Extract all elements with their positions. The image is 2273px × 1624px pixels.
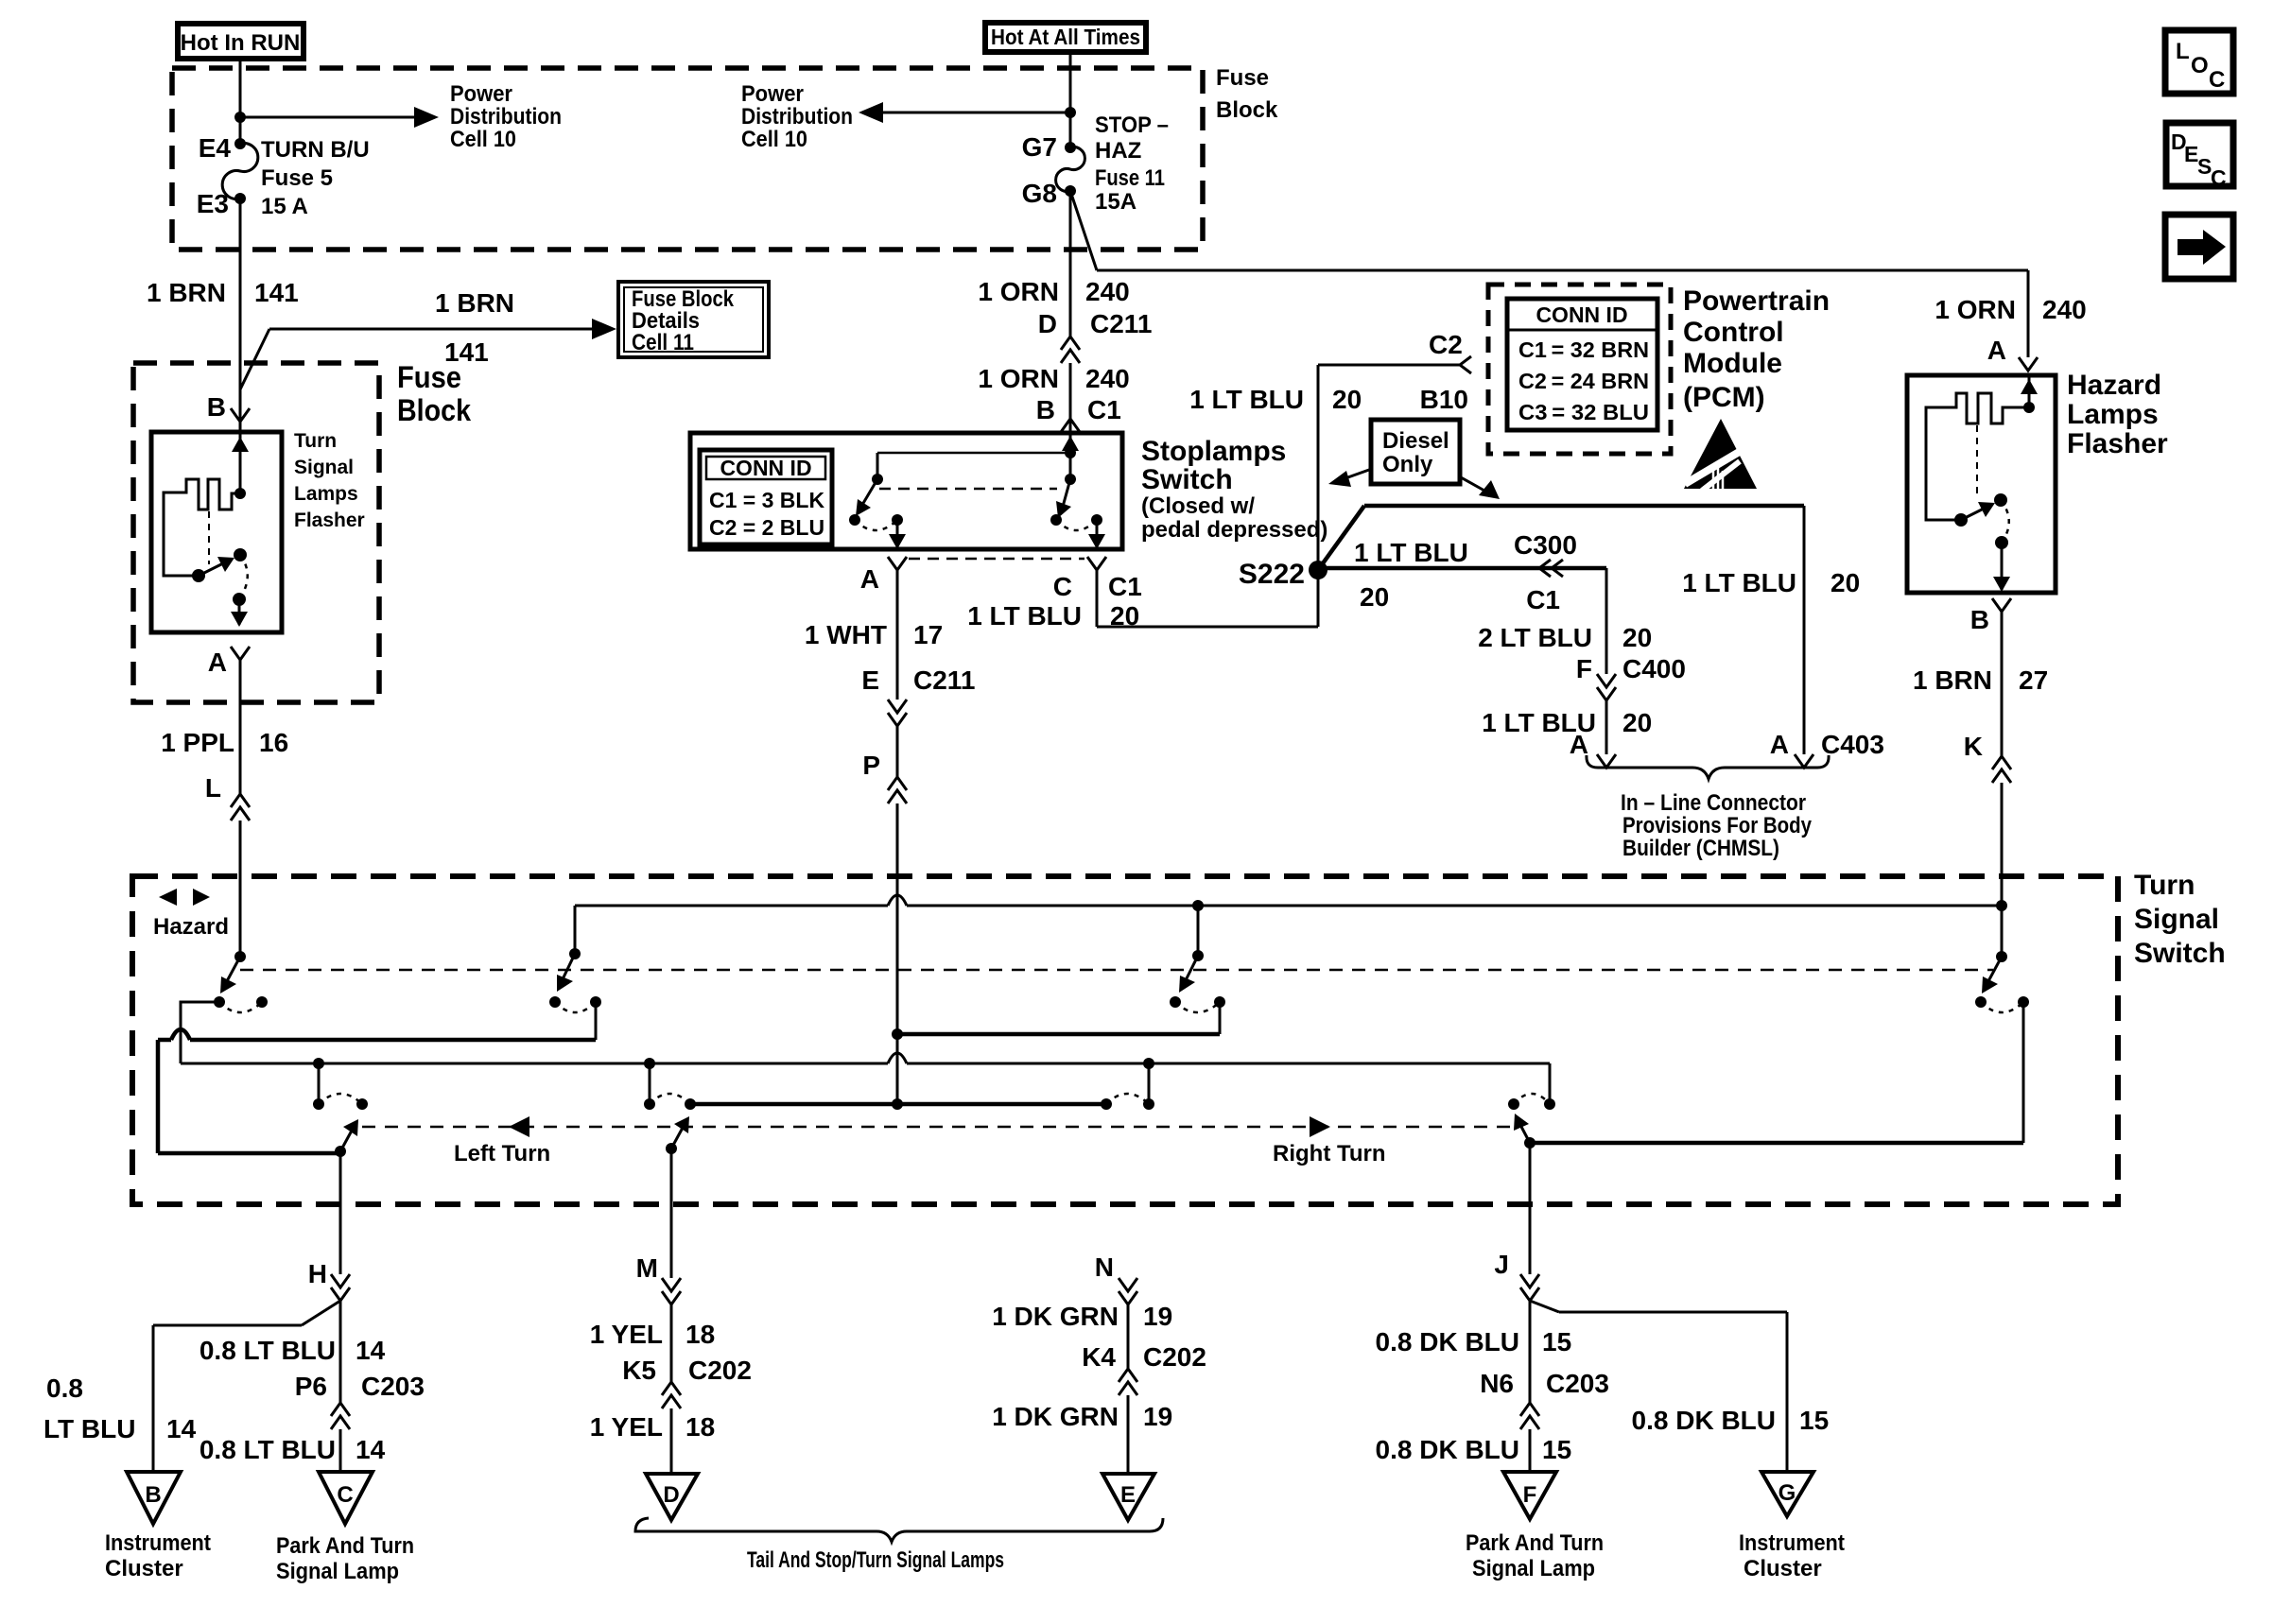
wire C202 to tail lamp D (1 YEL 18): [590, 1408, 715, 1474]
svg-text:Signal: Signal: [294, 457, 354, 478]
wire K down into turn signal switch: [2001, 783, 2004, 957]
svg-text:In – Line Connector: In – Line Connector: [1621, 790, 1806, 816]
node bus2 mid drop: [644, 1058, 655, 1104]
svg-text:1 LT BLU: 1 LT BLU: [1354, 538, 1468, 567]
fuse block (top) dashed outline: [172, 65, 1278, 250]
svg-text:1 LT BLU: 1 LT BLU: [1682, 568, 1796, 597]
hazard-left contact pair: [214, 996, 268, 1012]
hazard flasher feed wire with up arrow: [2021, 375, 2038, 413]
svg-text:C1: C1: [1087, 395, 1121, 424]
svg-text:A: A: [1987, 336, 2006, 365]
destination triangle C park and turn signal lamp: [276, 1472, 414, 1584]
svg-text:Fuse 11: Fuse 11: [1095, 165, 1165, 191]
power label Hot At All Times: [985, 23, 1146, 52]
svg-text:Switch: Switch: [1141, 464, 1233, 495]
wire M to C202 pin K5 (1 YEL 18): [590, 1304, 752, 1385]
wire A down to connector C211 pin E (1 WHT 17): [805, 570, 976, 700]
center-right pole from bus0: [1179, 906, 1204, 993]
svg-text:Block: Block: [1216, 97, 1278, 123]
connector C202 pin K5: [662, 1382, 681, 1408]
fuse block details cell 11 box: [618, 282, 769, 357]
wire C400 to C403 pin A (1 LT BLU 20): [1482, 700, 1652, 759]
wire center-left contact down to bus1: [595, 1002, 598, 1040]
wire hazard-left contact to feed bus2: [181, 1002, 219, 1063]
svg-text:18: 18: [685, 1320, 715, 1349]
hazard flasher contact arc: [1995, 500, 2009, 549]
right switch pole: [1065, 453, 1076, 485]
svg-text:E: E: [1120, 1482, 1136, 1508]
wire J branch to instrument cluster (0.8 DK BLU 15): [1530, 1301, 1829, 1472]
svg-text:L: L: [2176, 39, 2190, 64]
svg-text:C203: C203: [1546, 1369, 1609, 1398]
far-right contact pair: [1975, 996, 2029, 1012]
svg-text:1 YEL: 1 YEL: [590, 1320, 663, 1349]
svg-text:Cluster: Cluster: [1744, 1556, 1822, 1581]
svg-text:C1 = 3 BLK: C1 = 3 BLK: [709, 488, 824, 512]
svg-text:1 LT BLU: 1 LT BLU: [1189, 385, 1304, 414]
svg-text:E4: E4: [199, 133, 232, 163]
svg-text:Stoplamps: Stoplamps: [1141, 436, 1286, 467]
svg-text:K4: K4: [1082, 1342, 1116, 1372]
wire hazard flasher B to K (1 BRN 27): [1913, 612, 2048, 761]
svg-text:Only: Only: [1382, 452, 1433, 477]
destination triangle B instrument cluster: [105, 1472, 211, 1581]
svg-text:20: 20: [1360, 582, 1389, 612]
node bus0 right-center drop: [1192, 900, 1204, 911]
hazard feed pole (from flasher L): [220, 951, 246, 993]
svg-text:1 BRN: 1 BRN: [435, 288, 514, 318]
wire C to S222 (1 LT BLU 20): [967, 570, 1318, 631]
DESC reference icon: [2166, 123, 2233, 190]
svg-text:Flasher: Flasher: [294, 510, 365, 531]
hazard position icons: [153, 889, 229, 940]
svg-text:B: B: [145, 1482, 161, 1508]
right stoplamp switch arm: [1056, 479, 1071, 518]
arrow reference icon: [2165, 215, 2233, 279]
svg-text:20: 20: [1622, 708, 1652, 737]
svg-text:Provisions For Body: Provisions For Body: [1622, 813, 1813, 838]
svg-text:Power: Power: [450, 81, 512, 107]
svg-text:1 YEL: 1 YEL: [590, 1412, 663, 1442]
right turn indicator arrow: [1273, 1116, 1386, 1166]
connector pin N: [1095, 1253, 1137, 1304]
svg-text:C: C: [337, 1482, 353, 1508]
diesel only right arrow: [1461, 477, 1500, 499]
svg-text:Powertrain: Powertrain: [1683, 285, 1830, 317]
power label Hot In RUN: [178, 24, 304, 59]
svg-text:P6: P6: [295, 1372, 327, 1401]
left stoplamp switch arm: [856, 479, 877, 516]
svg-text:0.8 LT BLU: 0.8 LT BLU: [200, 1435, 336, 1464]
svg-text:C1: C1: [1108, 572, 1142, 601]
svg-text:20: 20: [1831, 568, 1860, 597]
destination triangle F park and turn signal lamp: [1466, 1472, 1604, 1581]
svg-text:C202: C202: [688, 1356, 752, 1385]
svg-text:B: B: [1970, 605, 1989, 634]
output wire pin A of stoplamps switch: [889, 520, 906, 549]
svg-text:0.8 DK BLU: 0.8 DK BLU: [1376, 1435, 1519, 1464]
LOC reference icon: [2165, 30, 2233, 94]
svg-text:1 ORN: 1 ORN: [978, 277, 1059, 306]
svg-text:Distribution: Distribution: [741, 104, 853, 130]
svg-text:1 DK GRN: 1 DK GRN: [992, 1402, 1119, 1431]
svg-text:1 DK GRN: 1 DK GRN: [992, 1302, 1119, 1331]
svg-text:B: B: [207, 392, 226, 422]
svg-text:(PCM): (PCM): [1683, 382, 1765, 413]
svg-text:C1: C1: [1526, 585, 1560, 614]
connector pin A below switch: [860, 557, 907, 594]
mid-right contact pair: [1101, 1094, 1154, 1110]
wire to left switch pole: [872, 453, 1070, 485]
wire C211 to stoplamps switch pin B (1 ORN 240): [978, 363, 1129, 433]
svg-text:240: 240: [1085, 277, 1130, 306]
connector at hazard flasher pin A: [2019, 357, 2038, 371]
mid-left switch arm: [666, 1116, 689, 1154]
svg-text:C2 = 24 BRN: C2 = 24 BRN: [1518, 369, 1649, 393]
svg-text:18: 18: [685, 1412, 715, 1442]
svg-text:Diesel: Diesel: [1382, 428, 1449, 454]
svg-text:14: 14: [166, 1414, 197, 1443]
svg-text:0.8: 0.8: [46, 1373, 83, 1403]
wire C300 down to C400 pin F (2 LT BLU 20): [1478, 568, 1686, 683]
right-turn switch arm: [1514, 1114, 1536, 1149]
svg-text:Signal Lamp: Signal Lamp: [1472, 1556, 1595, 1581]
conn id table (PCM): [1507, 299, 1657, 430]
svg-text:Instrument: Instrument: [1739, 1530, 1845, 1556]
turn flasher contact arc: [233, 555, 248, 606]
svg-text:S222: S222: [1239, 559, 1305, 590]
svg-text:A: A: [208, 648, 227, 677]
wire C202 to tail lamp E (1 DK GRN 19): [992, 1395, 1172, 1474]
wire from Hot At All Times down to fuse 11: [1069, 52, 1072, 147]
svg-text:1 ORN: 1 ORN: [978, 364, 1059, 393]
svg-text:K5: K5: [622, 1356, 656, 1385]
PCM dashed outline: [1488, 285, 1830, 454]
svg-text:15: 15: [1542, 1435, 1571, 1464]
right contact pair of stoplamps switch: [1050, 514, 1102, 530]
svg-text:Distribution: Distribution: [450, 104, 562, 130]
svg-text:E: E: [861, 665, 879, 695]
svg-text:C211: C211: [913, 665, 975, 695]
svg-text:1 WHT: 1 WHT: [805, 620, 887, 649]
node bus0 at K feed: [1996, 900, 2007, 911]
svg-text:Hazard: Hazard: [2067, 370, 2161, 401]
svg-text:O: O: [2191, 53, 2209, 78]
svg-text:F: F: [1523, 1482, 1537, 1508]
left-turn contact pair (lamp side): [313, 1094, 368, 1110]
connector pin C below switch: [1053, 557, 1142, 601]
svg-text:Instrument: Instrument: [105, 1530, 211, 1556]
stoplamps switch feed entering pin B: [1062, 433, 1079, 458]
svg-text:15: 15: [1542, 1327, 1571, 1356]
turn flasher element dashed link: [208, 511, 210, 564]
svg-text:27: 27: [2019, 665, 2048, 695]
svg-text:D: D: [663, 1482, 679, 1508]
svg-text:CONN ID: CONN ID: [1536, 302, 1627, 327]
svg-text:1 ORN: 1 ORN: [1935, 295, 2016, 324]
connector pin H: [308, 1259, 350, 1301]
svg-text:C: C: [1053, 572, 1072, 601]
turn flasher switch arm: [192, 548, 247, 582]
svg-text:C1 = 32 BRN: C1 = 32 BRN: [1518, 337, 1649, 362]
svg-text:C400: C400: [1622, 654, 1686, 683]
node at power distribution tap (left): [234, 112, 246, 123]
connector C203 pin N6: [1520, 1403, 1539, 1429]
svg-text:240: 240: [2042, 295, 2087, 324]
fuse block (left) dashed outline: [133, 360, 471, 702]
wire left-turn pivot down to H: [339, 1151, 342, 1274]
left-turn switch arm: [335, 1119, 358, 1157]
svg-text:C2 = 2 BLU: C2 = 2 BLU: [709, 515, 824, 540]
connector C403 left pin A: [1597, 754, 1616, 768]
svg-text:19: 19: [1143, 1402, 1172, 1431]
connector pin L: [231, 794, 250, 821]
svg-text:K: K: [1964, 732, 1983, 761]
svg-text:HAZ: HAZ: [1095, 138, 1141, 164]
svg-text:0.8 LT BLU: 0.8 LT BLU: [200, 1336, 336, 1365]
svg-text:1 BRN: 1 BRN: [147, 278, 226, 307]
svg-text:Hot At All Times: Hot At All Times: [991, 25, 1140, 49]
svg-text:Hot In RUN: Hot In RUN: [181, 30, 301, 56]
connector C211 pin E: [888, 700, 907, 726]
svg-text:LT BLU: LT BLU: [43, 1414, 135, 1443]
wire J to C203 pin N6 (0.8 DK BLU 15): [1376, 1301, 1609, 1403]
connector pin A of fuse block: [208, 647, 250, 677]
svg-text:1 LT BLU: 1 LT BLU: [967, 601, 1082, 631]
svg-text:Cell 11: Cell 11: [632, 330, 694, 355]
ESD sensitive symbol: [1684, 419, 1757, 491]
wire B10 down to S222: [1317, 365, 1320, 627]
destination triangle D tail and stop lamp: [646, 1474, 698, 1520]
svg-text:F: F: [1576, 654, 1592, 683]
hazard flasher element dashed link: [1976, 425, 1978, 493]
svg-text:C403: C403: [1821, 730, 1884, 759]
bus3 stop feed to lamps: [690, 1102, 1106, 1107]
bus0 flasher output bus: [575, 895, 2002, 906]
stoplamps switch box: [690, 433, 1327, 549]
svg-text:Turn: Turn: [2134, 870, 2195, 901]
wire L down into turn signal switch: [239, 821, 242, 957]
svg-text:Fuse 5: Fuse 5: [261, 165, 333, 191]
svg-text:1 PPL: 1 PPL: [161, 728, 234, 757]
diesel only note box: [1371, 420, 1460, 484]
bus2 hazard distribution bus: [181, 1053, 1550, 1104]
svg-text:Left Turn: Left Turn: [454, 1141, 550, 1166]
wire A down to L (1 PPL 16): [161, 660, 288, 803]
svg-text:A: A: [1570, 730, 1588, 759]
connector C211 pin D: [1061, 337, 1080, 363]
svg-text:15A: 15A: [1095, 189, 1136, 215]
svg-text:G: G: [1778, 1480, 1796, 1506]
svg-text:20: 20: [1622, 623, 1652, 652]
svg-text:Signal: Signal: [2134, 904, 2219, 935]
mechanical link dashed (stoplamp switch): [879, 488, 1057, 491]
wire E3 down to fuse block B (circuit 141): [147, 199, 299, 422]
wire PCM B10 via C2 connector: [1189, 330, 1471, 414]
turn flasher output arrow to A: [231, 599, 248, 627]
wire P down into switch: [896, 803, 899, 1034]
connector C1 pin B: [1061, 419, 1080, 432]
connector C202 pin K4: [1119, 1369, 1137, 1395]
svg-text:Park And Turn: Park And Turn: [276, 1533, 414, 1559]
node stop feed at bus3: [892, 1098, 903, 1110]
node stop feed junction: [892, 1028, 903, 1040]
destination triangle G instrument cluster: [1739, 1472, 1845, 1581]
fuse F5 TURN B/U 15A: [197, 133, 370, 219]
connector pin M: [636, 1253, 681, 1304]
svg-text:Signal Lamp: Signal Lamp: [276, 1559, 399, 1584]
node bus2 right drop: [1143, 1058, 1154, 1104]
wire far-right contact to right turn pivot: [1530, 1002, 2023, 1143]
svg-text:15 A: 15 A: [261, 194, 308, 219]
wire arrow to Power Distribution Cell 10 (left): [240, 81, 562, 152]
wire mid pivot down to M: [670, 1149, 673, 1278]
hazard flasher switch arm: [1954, 493, 2007, 527]
svg-text:Flasher: Flasher: [2067, 428, 2168, 459]
svg-text:J: J: [1494, 1250, 1509, 1279]
svg-text:STOP –: STOP –: [1095, 112, 1169, 138]
svg-text:C: C: [2209, 67, 2225, 93]
svg-text:Park And Turn: Park And Turn: [1466, 1530, 1604, 1556]
bus1 to left turn output: [158, 1029, 596, 1153]
svg-text:Switch: Switch: [2134, 938, 2226, 969]
svg-text:14: 14: [356, 1336, 386, 1365]
hazard lamps flasher box: [1907, 370, 2168, 593]
wire from Hot In RUN down to fuse 5: [239, 59, 242, 144]
svg-text:0.8 DK BLU: 0.8 DK BLU: [1376, 1327, 1519, 1356]
wire arrow to Power Distribution Cell 10 (right): [741, 81, 1070, 152]
svg-text:19: 19: [1143, 1302, 1172, 1331]
svg-text:141: 141: [254, 278, 299, 307]
svg-text:16: 16: [259, 728, 288, 757]
svg-text:C211: C211: [1090, 309, 1152, 338]
svg-text:240: 240: [1085, 364, 1130, 393]
connector pin B of fuse block: [207, 392, 250, 422]
svg-text:C203: C203: [361, 1372, 425, 1401]
svg-text:0.8 DK BLU: 0.8 DK BLU: [1632, 1406, 1776, 1435]
wire C203 to park and turn lamp (0.8 LT BLU 14): [200, 1429, 386, 1472]
wire center-right contact to stop feed: [897, 1002, 1220, 1034]
svg-text:(Closed w/: (Closed w/: [1141, 493, 1255, 519]
svg-text:Cluster: Cluster: [105, 1556, 183, 1581]
turn signal switch dashed outline: [132, 870, 2226, 1204]
brace tail and stop/turn signal lamps: [635, 1518, 1163, 1573]
connector C300: [1539, 560, 1563, 577]
node bus2 left drop: [313, 1058, 324, 1104]
wire E to P into turn signal switch: [862, 726, 897, 780]
connector C403 right pin A: [1795, 754, 1813, 768]
wire S222 to C403 right pin A (1 LT BLU 20): [1318, 506, 1884, 759]
wire S222 to C300 and C1/C400 column (1 LT BLU 20): [1318, 530, 1606, 612]
row1 actuator dashed line: [240, 969, 1993, 972]
center-right contact pair: [1170, 996, 1225, 1012]
turn flasher feed wire with up arrow: [232, 422, 249, 499]
turn signal lamps flasher box: [151, 430, 365, 632]
svg-text:C3 = 32 BLU: C3 = 32 BLU: [1518, 400, 1649, 424]
brace under in-line connector: [1587, 755, 1829, 861]
svg-text:B: B: [1036, 395, 1055, 424]
dashed connector face line A to C: [909, 558, 1084, 561]
svg-text:L: L: [205, 773, 221, 803]
wire right-turn pivot down to J: [1529, 1143, 1532, 1274]
svg-text:Right Turn: Right Turn: [1273, 1141, 1386, 1166]
hazard flasher heater element: [1926, 393, 2029, 520]
center-left pole from bus0: [557, 906, 581, 992]
svg-text:M: M: [636, 1253, 658, 1283]
svg-text:C300: C300: [1514, 530, 1577, 560]
svg-text:Builder (CHMSL): Builder (CHMSL): [1622, 836, 1779, 861]
svg-text:Tail And Stop/Turn Signal Lamp: Tail And Stop/Turn Signal Lamps: [747, 1547, 1004, 1573]
svg-text:14: 14: [356, 1435, 386, 1464]
svg-text:Turn: Turn: [294, 430, 337, 452]
connector pin J: [1494, 1250, 1539, 1301]
svg-text:Fuse: Fuse: [1216, 65, 1269, 91]
svg-text:A: A: [1770, 730, 1789, 759]
splice S222: [1239, 559, 1327, 590]
svg-text:2 LT BLU: 2 LT BLU: [1478, 623, 1592, 652]
connector pin P: [888, 777, 907, 803]
svg-text:D: D: [1038, 309, 1057, 338]
center-left contact pair: [549, 996, 601, 1012]
far-right pole from K: [1982, 951, 2007, 993]
connector C203 pin P6: [331, 1403, 350, 1429]
destination triangle E tail and stop lamp: [1102, 1474, 1154, 1520]
svg-text:17: 17: [913, 620, 943, 649]
wire C203 to park and turn lamp (0.8 DK BLU 15): [1376, 1429, 1572, 1472]
right-turn contact pair: [1508, 1094, 1555, 1110]
svg-text:1 BRN: 1 BRN: [1913, 665, 1992, 695]
svg-text:G8: G8: [1022, 179, 1057, 208]
diesel only left arrow: [1328, 470, 1369, 487]
svg-text:Block: Block: [397, 393, 471, 427]
svg-text:C: C: [2211, 165, 2227, 190]
wire G8 to hazard flasher A (1 ORN 240): [1070, 191, 2087, 365]
connector pin K: [1992, 756, 2011, 783]
mid-left contact pair (M feed): [644, 1094, 696, 1110]
wire H branch to instrument cluster (0.8 LT BLU 14): [43, 1301, 340, 1472]
wire H to C203 pin P6 (0.8 LT BLU 14): [200, 1301, 425, 1403]
svg-text:pedal depressed): pedal depressed): [1141, 517, 1327, 543]
conn id table (stoplamps switch): [700, 450, 832, 544]
svg-text:A: A: [860, 564, 879, 594]
svg-text:15: 15: [1799, 1406, 1829, 1435]
svg-text:CONN ID: CONN ID: [720, 456, 811, 480]
output wire pin C of stoplamps switch: [1088, 520, 1105, 549]
hazard flasher output arrow to B: [1993, 543, 2010, 592]
svg-text:N6: N6: [1480, 1369, 1514, 1398]
connector at hazard flasher pin B: [1970, 598, 2011, 634]
svg-text:Module: Module: [1683, 348, 1782, 379]
svg-text:20: 20: [1332, 385, 1362, 414]
svg-text:Lamps: Lamps: [2067, 399, 2159, 430]
svg-text:P: P: [862, 751, 880, 780]
turn flasher heater element: [164, 479, 240, 576]
svg-text:Lamps: Lamps: [294, 483, 358, 505]
svg-text:E3: E3: [197, 189, 229, 218]
svg-text:Control: Control: [1683, 317, 1784, 348]
row2 actuator dashed line: [362, 1126, 1514, 1129]
svg-text:G7: G7: [1022, 132, 1057, 162]
wire branch to Fuse Block Details (1 BRN 141): [240, 288, 616, 389]
svg-text:Fuse: Fuse: [397, 360, 461, 394]
svg-text:C202: C202: [1143, 1342, 1206, 1372]
wire N to C202 pin K4 (1 DK GRN 19): [992, 1302, 1206, 1372]
svg-text:B10: B10: [1420, 385, 1468, 414]
fuse F11 STOP-HAZ 15A: [1022, 112, 1169, 215]
left contact pair of stoplamps switch: [849, 514, 903, 530]
wire G8 down to connector C211 pin D (1 ORN 240): [978, 191, 1152, 338]
svg-text:C2: C2: [1429, 330, 1463, 359]
